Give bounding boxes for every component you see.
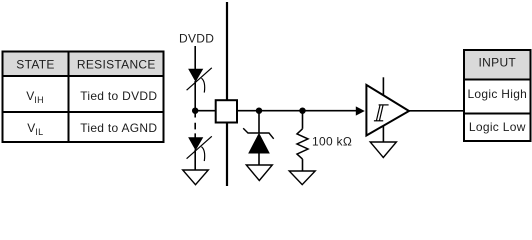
header STATE	[16, 58, 54, 72]
svg-text:STATE: STATE	[16, 58, 54, 72]
cell Tied to DVDD	[80, 89, 157, 103]
header INPUT	[479, 55, 517, 69]
ground symbol (R1)	[289, 171, 315, 185]
cell Logic High	[467, 87, 527, 101]
svg-text:INPUT: INPUT	[479, 55, 517, 69]
wire DVDD to ESD diode D1	[194, 46, 196, 70]
wire D2 anode to ground	[194, 150, 196, 171]
cell VIL	[27, 121, 43, 137]
pad box	[216, 100, 237, 122]
ESD diode D1 (to DVDD)	[187, 68, 212, 93]
cell Tied to AGND	[80, 121, 157, 135]
U1 ground stub	[382, 126, 384, 142]
ground symbol (D2)	[183, 170, 209, 185]
ground symbol (U1)	[370, 142, 396, 158]
junction dot at pad node	[192, 108, 198, 114]
cell VIH	[26, 89, 44, 105]
svg-text:IH: IH	[34, 95, 44, 105]
U1 supply stub	[382, 77, 384, 95]
wire pad box to node B	[237, 110, 356, 112]
right input table	[464, 50, 531, 141]
wire node to pad box	[195, 110, 216, 112]
wire R1 to ground	[302, 159, 304, 171]
zener diode D3 cathode bar	[243, 128, 274, 139]
wire node C to resistor R1	[302, 111, 304, 129]
wire node B to zener D3	[258, 111, 260, 133]
label 100 kOhm	[312, 135, 352, 149]
svg-text:Tied to DVDD: Tied to DVDD	[80, 89, 157, 103]
device boundary line	[226, 2, 228, 186]
svg-text:Logic Low: Logic Low	[469, 120, 526, 134]
junction dot node B (zener tap)	[256, 108, 262, 114]
svg-text:RESISTANCE: RESISTANCE	[77, 58, 156, 72]
header RESISTANCE	[77, 58, 156, 72]
zener diode D3 body	[249, 134, 269, 153]
schmitt trigger buffer U1	[366, 85, 409, 136]
svg-text:IL: IL	[35, 127, 43, 137]
svg-text:Logic High: Logic High	[467, 87, 527, 101]
wire stub below node	[194, 111, 196, 118]
wire D3 anode to ground	[258, 153, 260, 165]
svg-text:100 kΩ: 100 kΩ	[312, 135, 352, 149]
ground symbol (D3)	[246, 165, 272, 181]
svg-text:Tied to AGND: Tied to AGND	[80, 121, 157, 135]
dashed wire node to ESD diode D2	[194, 123, 196, 138]
input arrowhead into buffer U1	[356, 106, 365, 115]
output wire U1 to input table	[409, 110, 464, 112]
wire D1 anode to node	[194, 81, 196, 111]
left state/resistance table	[3, 52, 164, 143]
svg-text:DVDD: DVDD	[179, 32, 214, 46]
net label DVDD	[179, 32, 214, 46]
cell Logic Low	[469, 120, 526, 134]
U1 hysteresis symbol	[374, 105, 389, 121]
ESD diode D2 (to AGND)	[187, 136, 212, 161]
resistor R1 100 kOhm	[297, 129, 308, 159]
junction dot node C (resistor tap)	[299, 108, 305, 114]
